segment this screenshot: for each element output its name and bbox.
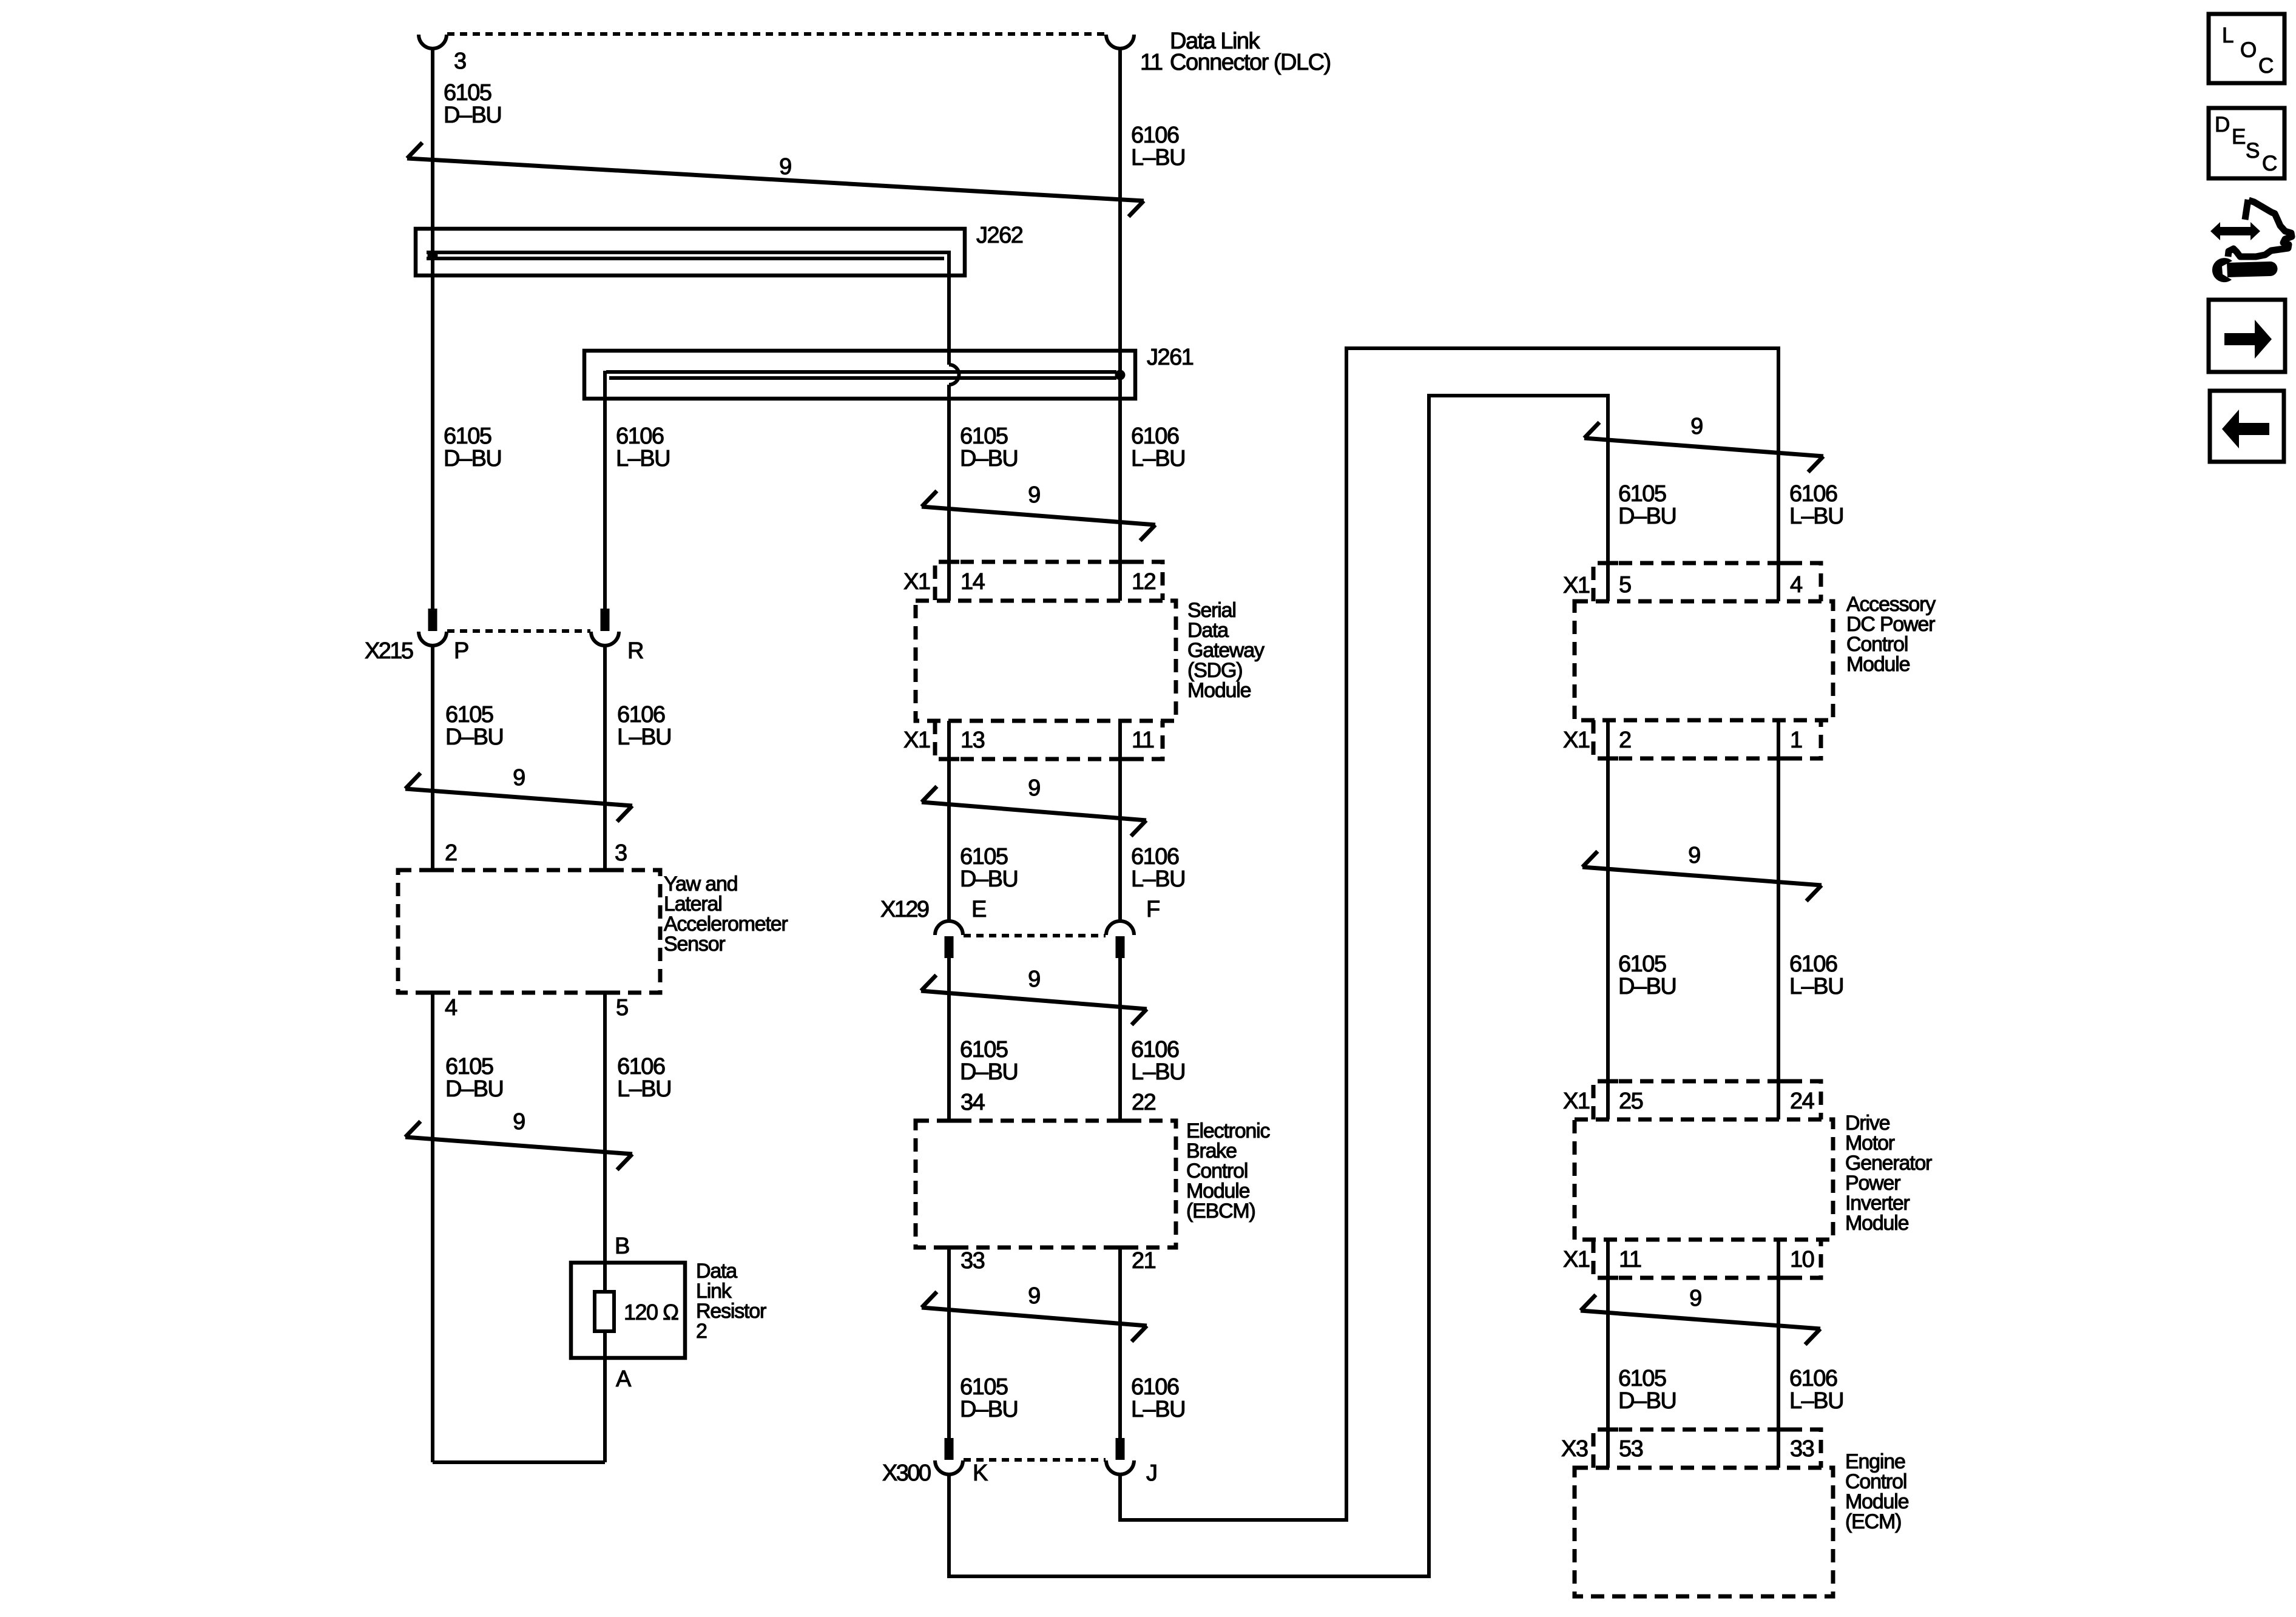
- svg-text:L–BU: L–BU: [1131, 866, 1185, 892]
- svg-text:13: 13: [961, 727, 985, 753]
- svg-text:22: 22: [1132, 1090, 1156, 1115]
- svg-text:2: 2: [1619, 727, 1631, 753]
- svg-text:9: 9: [1028, 482, 1040, 508]
- svg-text:4: 4: [1790, 572, 1803, 598]
- svg-text:4: 4: [445, 995, 458, 1021]
- svg-text:F: F: [1146, 897, 1160, 922]
- svg-text:6105: 6105: [1618, 951, 1666, 977]
- svg-text:(EBCM): (EBCM): [1186, 1200, 1255, 1223]
- svg-text:6106: 6106: [1789, 951, 1837, 977]
- svg-text:S: S: [2246, 139, 2259, 163]
- svg-text:9: 9: [779, 154, 791, 180]
- svg-text:J262: J262: [976, 223, 1023, 248]
- svg-text:33: 33: [1790, 1436, 1814, 1462]
- svg-text:P: P: [454, 638, 468, 664]
- svg-text:53: 53: [1619, 1436, 1643, 1462]
- svg-text:6105: 6105: [960, 844, 1008, 869]
- svg-text:6105: 6105: [960, 424, 1008, 449]
- svg-text:L–BU: L–BU: [1789, 504, 1843, 529]
- svg-text:10: 10: [1790, 1247, 1814, 1272]
- svg-text:6106: 6106: [1131, 424, 1179, 449]
- svg-text:11: 11: [1619, 1247, 1641, 1272]
- svg-text:E: E: [2232, 125, 2245, 149]
- svg-text:34: 34: [961, 1090, 985, 1115]
- svg-text:3: 3: [454, 49, 466, 74]
- svg-text:9: 9: [1028, 775, 1040, 801]
- svg-text:L–BU: L–BU: [1131, 446, 1185, 471]
- svg-text:6105: 6105: [960, 1037, 1008, 1062]
- svg-text:L–BU: L–BU: [1789, 974, 1843, 999]
- svg-text:(ECM): (ECM): [1845, 1510, 1901, 1533]
- svg-text:21: 21: [1132, 1248, 1156, 1274]
- svg-text:D–BU: D–BU: [960, 1059, 1018, 1085]
- svg-text:J261: J261: [1147, 345, 1194, 370]
- svg-text:X1: X1: [1563, 573, 1590, 598]
- svg-text:L–BU: L–BU: [1131, 1059, 1185, 1085]
- svg-text:D–BU: D–BU: [445, 724, 503, 750]
- svg-text:X1: X1: [1563, 1089, 1590, 1114]
- svg-text:9: 9: [513, 1109, 525, 1135]
- svg-text:D–BU: D–BU: [960, 446, 1018, 471]
- svg-text:9: 9: [1028, 1283, 1040, 1309]
- svg-text:D–BU: D–BU: [445, 1076, 503, 1102]
- svg-text:O: O: [2240, 38, 2256, 62]
- svg-text:X1: X1: [1563, 1247, 1590, 1272]
- svg-text:25: 25: [1619, 1089, 1643, 1114]
- svg-text:2: 2: [445, 840, 457, 866]
- svg-text:9: 9: [1689, 1286, 1701, 1311]
- svg-text:6105: 6105: [960, 1374, 1008, 1400]
- svg-text:D: D: [2215, 113, 2229, 137]
- svg-text:L–BU: L–BU: [617, 1076, 671, 1102]
- svg-text:14: 14: [961, 569, 985, 595]
- svg-text:6106: 6106: [1789, 481, 1837, 507]
- svg-text:Module: Module: [1846, 653, 1910, 676]
- svg-text:6105: 6105: [444, 424, 491, 449]
- svg-text:9: 9: [513, 765, 525, 791]
- svg-text:C: C: [2262, 152, 2277, 175]
- svg-text:9: 9: [1028, 967, 1040, 992]
- svg-text:6106: 6106: [1131, 1037, 1179, 1062]
- svg-text:6105: 6105: [445, 1054, 493, 1079]
- svg-text:L–BU: L–BU: [1131, 145, 1185, 170]
- svg-text:6106: 6106: [1131, 123, 1179, 148]
- svg-text:R: R: [627, 638, 643, 664]
- svg-text:Module: Module: [1187, 679, 1251, 702]
- svg-text:D–BU: D–BU: [1618, 1388, 1676, 1414]
- svg-text:X1: X1: [903, 569, 930, 595]
- svg-text:X300: X300: [882, 1460, 931, 1486]
- svg-text:D–BU: D–BU: [444, 446, 501, 471]
- svg-text:X1: X1: [903, 727, 930, 753]
- svg-text:6105: 6105: [445, 702, 493, 727]
- svg-text:D–BU: D–BU: [960, 866, 1018, 892]
- svg-text:24: 24: [1790, 1089, 1815, 1114]
- svg-text:Connector (DLC): Connector (DLC): [1170, 50, 1331, 75]
- svg-text:J: J: [1146, 1460, 1157, 1486]
- svg-text:6105: 6105: [1618, 481, 1666, 507]
- svg-text:6106: 6106: [1789, 1366, 1837, 1391]
- svg-text:6105: 6105: [444, 80, 491, 106]
- svg-text:Module: Module: [1845, 1212, 1909, 1235]
- svg-text:L–BU: L–BU: [616, 446, 670, 471]
- svg-text:D–BU: D–BU: [444, 103, 501, 128]
- svg-text:9: 9: [1690, 414, 1703, 439]
- svg-text:33: 33: [961, 1248, 985, 1274]
- svg-text:6105: 6105: [1618, 1366, 1666, 1391]
- svg-text:6106: 6106: [616, 424, 664, 449]
- svg-text:L: L: [2222, 24, 2234, 47]
- svg-text:E: E: [971, 897, 986, 922]
- svg-text:5: 5: [1619, 572, 1631, 598]
- svg-text:L–BU: L–BU: [1131, 1397, 1185, 1422]
- svg-text:9: 9: [1688, 843, 1700, 868]
- svg-text:D–BU: D–BU: [1618, 974, 1676, 999]
- svg-text:L–BU: L–BU: [617, 724, 671, 750]
- svg-text:5: 5: [616, 995, 628, 1021]
- svg-text:B: B: [615, 1234, 629, 1259]
- svg-text:X3: X3: [1561, 1436, 1588, 1462]
- svg-text:3: 3: [615, 840, 627, 866]
- svg-text:6106: 6106: [617, 702, 665, 727]
- svg-text:11: 11: [1140, 50, 1163, 75]
- svg-text:X1: X1: [1563, 727, 1590, 753]
- svg-text:2: 2: [696, 1320, 707, 1343]
- svg-text:D–BU: D–BU: [1618, 504, 1676, 529]
- svg-text:K: K: [973, 1460, 988, 1486]
- svg-text:12: 12: [1132, 569, 1156, 595]
- svg-text:A: A: [616, 1366, 632, 1392]
- svg-text:6106: 6106: [1131, 1374, 1179, 1400]
- svg-text:X215: X215: [365, 638, 413, 664]
- svg-text:C: C: [2258, 54, 2273, 78]
- svg-text:X129: X129: [880, 897, 929, 922]
- svg-text:11: 11: [1132, 727, 1154, 753]
- svg-text:1: 1: [1790, 727, 1802, 753]
- svg-text:L–BU: L–BU: [1789, 1388, 1843, 1414]
- svg-text:Sensor: Sensor: [664, 933, 725, 956]
- svg-text:D–BU: D–BU: [960, 1397, 1018, 1422]
- svg-text:6106: 6106: [617, 1054, 665, 1079]
- svg-text:120 Ω: 120 Ω: [624, 1300, 678, 1325]
- svg-text:6106: 6106: [1131, 844, 1179, 869]
